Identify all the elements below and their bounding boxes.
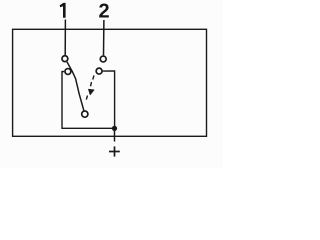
contact circle left (65, 69, 71, 75)
outer case box (13, 29, 207, 136)
wire from terminal 1 (64, 20, 66, 56)
dashed alternate-position arrow (86, 75, 94, 99)
terminal circle 2 (100, 56, 106, 62)
terminal circle 1 (62, 56, 68, 62)
common pivot circle (82, 111, 88, 117)
terminal label 1 (60, 3, 66, 18)
switch body inner box (62, 71, 115, 128)
junction dot (112, 126, 117, 131)
arrowhead (89, 89, 95, 94)
wire to plus supply (114, 128, 116, 141)
plus supply symbol (109, 146, 120, 156)
movable arm pole (67, 62, 84, 111)
wire from terminal 2 (103, 20, 105, 55)
svg-text:2: 2 (98, 1, 109, 23)
contact circle right (96, 68, 102, 74)
